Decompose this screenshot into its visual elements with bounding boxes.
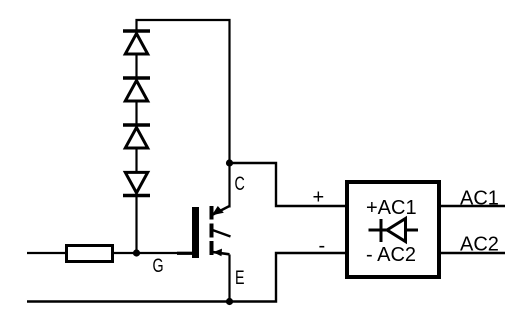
transistor Q1 collector arrowhead — [212, 206, 224, 215]
wire C to plus terminal of bridge — [230, 163, 347, 206]
transistor Q1 channel bottom segment — [210, 241, 214, 255]
svg-text:+AC1: +AC1 — [366, 197, 417, 219]
svg-text:-: - — [319, 235, 326, 257]
diode D1 (triangle) — [125, 34, 147, 55]
svg-text:E: E — [235, 267, 245, 288]
wire bottom rail to minus terminal of bridge — [27, 253, 346, 302]
bridge diode triangle — [387, 219, 406, 242]
svg-text:- AC2: - AC2 — [366, 244, 416, 266]
node C dot — [226, 159, 233, 166]
diode D4 (cathode bar) — [123, 194, 150, 197]
transistor Q1 channel top segment — [210, 206, 214, 220]
transistor Q1 middle diagonal — [213, 230, 231, 237]
wire AC2 output — [441, 252, 505, 254]
svg-text:+: + — [313, 187, 325, 209]
transistor Q1 gate bar — [192, 207, 199, 258]
wire diode chain up over to node C — [137, 20, 230, 253]
transistor Q1 channel middle segment — [210, 224, 214, 238]
diode D2 (cathode bar) — [123, 76, 150, 79]
diode D3 (triangle) — [125, 128, 147, 149]
diode D4 reversed (triangle) — [125, 172, 147, 193]
node E dot — [226, 298, 233, 305]
svg-text:AC1: AC1 — [460, 188, 499, 210]
bridge rectifier block U1 — [347, 182, 439, 277]
diode D2 (triangle) — [125, 81, 147, 102]
wire AC1 output — [441, 205, 505, 207]
svg-text:G: G — [153, 255, 164, 276]
wire collector vertical — [228, 163, 230, 208]
diode D1 (cathode bar) — [123, 29, 150, 32]
transistor Q1 emitter lead — [213, 252, 230, 254]
wire gate lead left — [27, 252, 65, 254]
bridge diode cathode bar — [380, 219, 383, 242]
wire resistor to gate — [114, 252, 193, 254]
svg-text:C: C — [235, 173, 245, 194]
diode D3 (cathode bar) — [123, 123, 150, 126]
bridge diode horizontal line — [369, 229, 419, 232]
svg-text:AC2: AC2 — [460, 234, 499, 256]
resistor R1 — [67, 246, 113, 262]
node junction dot gate — [133, 249, 140, 256]
wire emitter vertical — [228, 255, 230, 302]
transistor Q1 emitter arrowhead — [213, 249, 222, 257]
transistor Q1 collector diagonal — [212, 206, 230, 215]
gate lead stub — [177, 252, 192, 255]
